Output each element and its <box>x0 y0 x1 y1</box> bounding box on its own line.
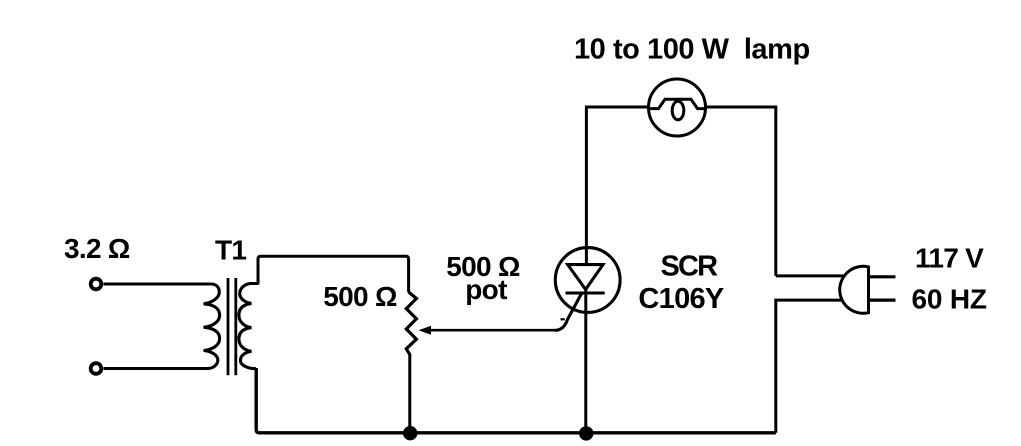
terminal lower (input jack) <box>91 363 102 374</box>
svg-text:SCR: SCR <box>660 251 718 283</box>
wiper arrow shaft (pot wiper to SCR gate) <box>429 329 557 332</box>
wire plug upper branch <box>776 274 846 277</box>
junction dot at resistor / bottom rail <box>403 426 417 440</box>
plug prong lower <box>869 299 896 302</box>
wire resistor bottom to bottom rail <box>408 354 411 433</box>
svg-text:C106Y: C106Y <box>638 283 724 315</box>
svg-text:117 V: 117 V <box>915 242 984 273</box>
wire SCR anode up and to lamp left <box>586 107 648 264</box>
svg-text:T1: T1 <box>215 235 246 266</box>
wire secondary bottom to bottom rail (bottom rail left) <box>256 368 776 433</box>
SCR triangle (anode-cathode diode symbol) <box>568 265 603 290</box>
wire lamp right to right rail down to plug upper branch <box>706 107 776 276</box>
wiper arrowhead <box>419 326 431 335</box>
wire SCR cathode to bottom rail <box>584 289 587 433</box>
terminal upper (input jack) <box>91 279 102 290</box>
wire lower terminal to transformer primary <box>104 367 208 370</box>
plug body (AC line plug) <box>840 266 869 313</box>
transformer T1 primary winding <box>204 284 220 369</box>
wire upper terminal to transformer primary <box>104 283 213 286</box>
wire secondary top to 500-ohm resistor top (top rail) <box>258 256 409 292</box>
transformer T1 secondary winding <box>239 284 258 369</box>
svg-text:500 Ω: 500 Ω <box>323 281 397 312</box>
svg-text:pot: pot <box>465 274 507 305</box>
SCR C106Y body circle <box>555 248 620 313</box>
stray mark near gate bend <box>561 318 565 320</box>
gate lead of SCR <box>555 294 582 331</box>
svg-text:60 HZ: 60 HZ <box>912 283 987 314</box>
lamp filament loop <box>672 101 684 120</box>
resistor / potentiometer 500-ohm zigzag element <box>406 292 416 355</box>
transformer core <box>228 278 236 375</box>
SCR cathode bar <box>566 291 605 294</box>
lamp filament top line <box>650 99 705 108</box>
lamp body circle <box>649 79 706 136</box>
svg-text:10 to 100 W lamp: 10 to 100 W lamp <box>574 34 810 66</box>
wire plug lower branch and right rail down to bottom rail <box>776 300 843 433</box>
plug prong upper <box>869 275 896 278</box>
junction dot at SCR cathode / bottom rail <box>579 426 593 440</box>
svg-text:3.2 Ω: 3.2 Ω <box>64 233 130 264</box>
